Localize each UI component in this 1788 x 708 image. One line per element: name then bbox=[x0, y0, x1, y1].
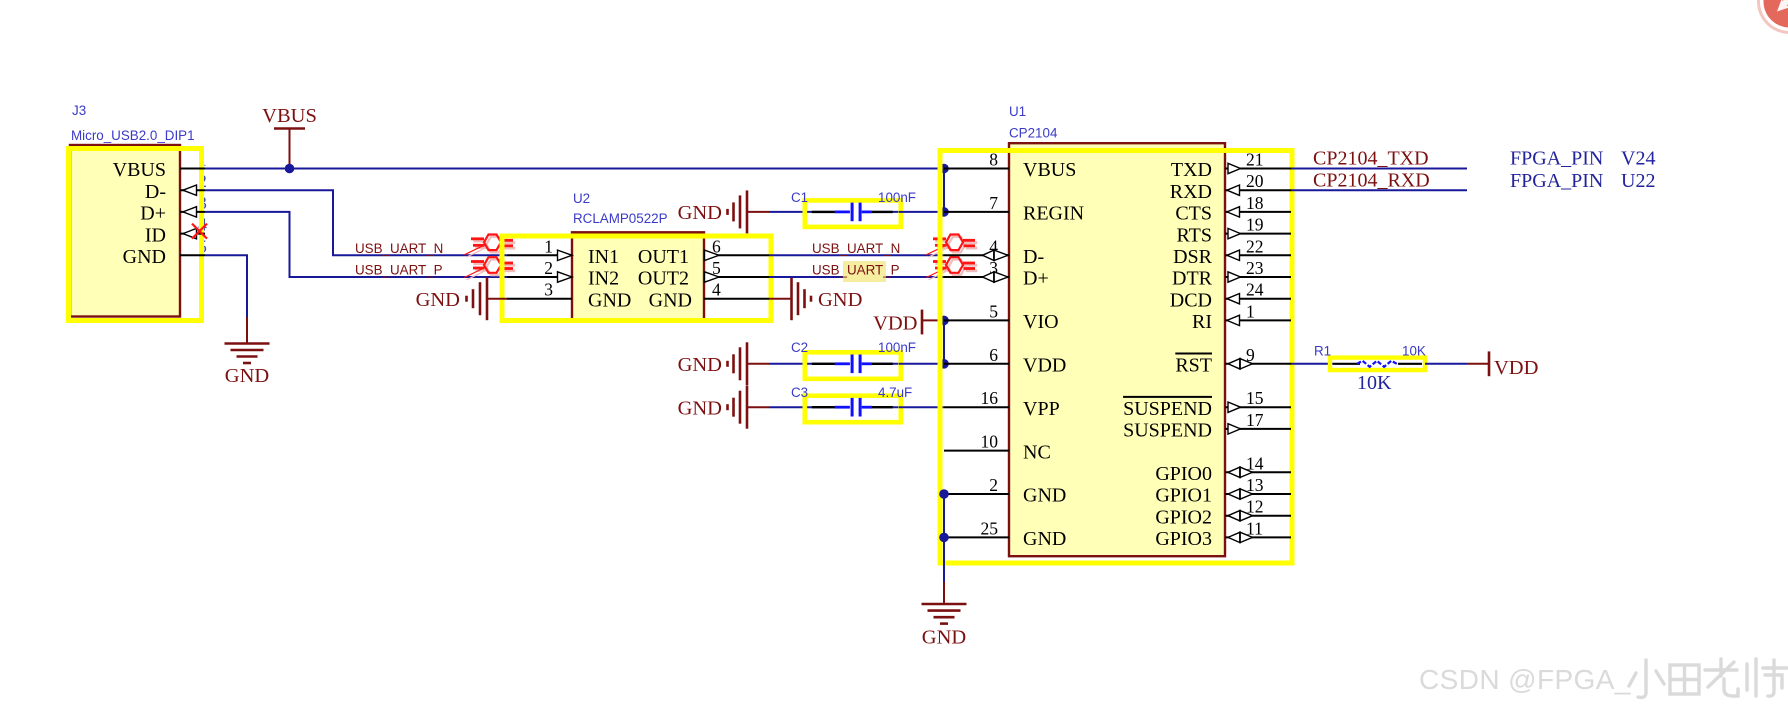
svg-text:GND: GND bbox=[123, 246, 166, 268]
svg-text:IN2: IN2 bbox=[588, 268, 619, 290]
svg-text:D-: D- bbox=[1023, 246, 1044, 268]
U1 pin 12 GPIO2 bbox=[1155, 497, 1291, 529]
svg-text:25: 25 bbox=[981, 518, 999, 538]
wire USB_UART_P: U2.OUT2 to U1.D+ bbox=[769, 276, 944, 278]
ground symbol at U2 pin 4 (rotated, facing left) bbox=[769, 277, 862, 320]
junction at VBUS stub bbox=[285, 164, 295, 174]
svg-text:U2: U2 bbox=[573, 191, 590, 206]
svg-text:D+: D+ bbox=[1023, 268, 1049, 290]
svg-text:CP2104: CP2104 bbox=[1009, 126, 1058, 141]
svg-text:GND: GND bbox=[678, 202, 722, 224]
svg-text:VDD: VDD bbox=[1494, 357, 1538, 379]
U1 pin 10 NC bbox=[944, 432, 1051, 464]
resistor R1 10K bbox=[1330, 358, 1425, 370]
U2 pin 1 IN1 bbox=[507, 236, 619, 268]
wire VBUS to REGIN vertical bbox=[943, 169, 945, 212]
svg-text:C1: C1 bbox=[791, 190, 808, 205]
svg-text:19: 19 bbox=[1246, 215, 1264, 235]
U1 pin 6 VDD bbox=[944, 345, 1066, 377]
search highlight on UART bbox=[843, 261, 886, 282]
svg-text:RCLAMP0522P: RCLAMP0522P bbox=[573, 211, 668, 226]
U1 pin 19 RTS bbox=[1177, 215, 1291, 247]
wire USB_UART_N: U2.OUT1 to U1.D- bbox=[769, 254, 944, 256]
svg-text:VBUS: VBUS bbox=[262, 105, 317, 127]
svg-text:21: 21 bbox=[1246, 150, 1264, 170]
U1 pin 20 RXD bbox=[1170, 171, 1291, 203]
U1 pin 1 RI bbox=[1192, 301, 1291, 333]
ESD protection U2 RCLAMP0522P body bbox=[502, 232, 771, 320]
svg-text:GND: GND bbox=[678, 398, 722, 420]
svg-text:CP2104_RXD: CP2104_RXD bbox=[1313, 170, 1430, 192]
wire VBUS net: J3.VBUS to U1 pin8 bbox=[205, 168, 944, 170]
svg-text:23: 23 bbox=[1246, 258, 1264, 278]
capacitor C3 4.7uF bbox=[805, 396, 901, 423]
wire gnd to C1 bbox=[769, 211, 806, 213]
svg-text:ID: ID bbox=[145, 224, 166, 246]
wire C3 to U1 pin16 bbox=[899, 406, 944, 408]
wire C2 to U1 pin6 bbox=[899, 363, 944, 365]
wire U1 GND pins to ground bbox=[939, 489, 949, 583]
U1 pin 15 SUSPEND bbox=[1123, 388, 1291, 420]
U1 pin 16 VPP bbox=[944, 388, 1060, 420]
J3 pin GND bbox=[123, 246, 205, 268]
svg-text:4: 4 bbox=[712, 280, 721, 300]
svg-text:CTS: CTS bbox=[1175, 203, 1212, 225]
svg-text:V24: V24 bbox=[1621, 148, 1655, 170]
svg-text:USB_UART_N: USB_UART_N bbox=[355, 241, 443, 256]
MCU U1 CP2104 body bbox=[940, 143, 1292, 563]
power port VDD at VIO bbox=[873, 310, 944, 335]
svg-text:VIO: VIO bbox=[1023, 311, 1059, 333]
wire R1 to VDD bbox=[1425, 363, 1467, 365]
svg-text:24: 24 bbox=[1246, 280, 1264, 300]
U1 pin 18 CTS bbox=[1175, 193, 1291, 225]
svg-text:USB_UART_P: USB_UART_P bbox=[355, 263, 443, 278]
svg-text:GND: GND bbox=[678, 354, 722, 376]
svg-text:5: 5 bbox=[712, 258, 721, 278]
svg-text:GND: GND bbox=[588, 289, 631, 311]
svg-text:RTS: RTS bbox=[1177, 224, 1212, 246]
svg-text:FPGA_PIN: FPGA_PIN bbox=[1510, 148, 1603, 170]
svg-text:5: 5 bbox=[989, 301, 998, 321]
ground symbol at C3 bbox=[678, 386, 769, 429]
svg-text:TXD: TXD bbox=[1171, 159, 1212, 181]
svg-text:GPIO2: GPIO2 bbox=[1155, 506, 1212, 528]
power port VDD right bbox=[1467, 351, 1538, 379]
svg-text:VDD: VDD bbox=[873, 313, 917, 335]
U1 pin 9 RST bbox=[1175, 345, 1291, 377]
svg-text:1: 1 bbox=[544, 236, 553, 256]
ground symbol at C2 bbox=[678, 342, 769, 385]
U1 pin 14 GPIO0 bbox=[1155, 453, 1291, 485]
svg-text:VDD: VDD bbox=[1023, 355, 1066, 377]
svg-text:C3: C3 bbox=[791, 385, 808, 400]
U1 pin 5 VIO bbox=[944, 301, 1059, 333]
wire USB_UART_N: J3.D- down to U2.IN1 bbox=[205, 190, 507, 255]
wire gnd to C3 bbox=[769, 406, 806, 408]
wire RST to R1 bbox=[1291, 363, 1333, 365]
wire VIO to VDD pin vertical bbox=[943, 320, 945, 363]
svg-text:U1: U1 bbox=[1009, 104, 1026, 119]
J3 pin D- bbox=[145, 181, 205, 203]
svg-text:NC: NC bbox=[1023, 441, 1051, 463]
svg-text:7: 7 bbox=[989, 193, 998, 213]
power port VBUS bbox=[262, 105, 317, 169]
U1 pin 7 REGIN bbox=[944, 193, 1084, 225]
text FPGA_PIN U22 bbox=[1510, 170, 1655, 192]
differential pair directive on USB_UART_N (left) bbox=[467, 237, 516, 257]
svg-text:2: 2 bbox=[989, 475, 998, 495]
wire C1 to U1 pin7 bbox=[899, 211, 944, 213]
svg-text:RST: RST bbox=[1175, 355, 1212, 377]
U1 pin 25 GND bbox=[944, 518, 1066, 550]
svg-text:100nF: 100nF bbox=[878, 340, 916, 355]
C3 labels bbox=[791, 385, 912, 400]
U1 pin 21 TXD bbox=[1171, 150, 1291, 182]
C2 labels bbox=[791, 340, 916, 355]
R1 labels bbox=[1314, 344, 1426, 395]
differential pair directive on USB_UART_N (right) bbox=[929, 237, 978, 257]
wire CP2104_TXD bbox=[1291, 168, 1467, 170]
svg-text:100nF: 100nF bbox=[878, 190, 916, 205]
svg-text:FPGA_PIN: FPGA_PIN bbox=[1510, 170, 1603, 192]
svg-text:CP2104_TXD: CP2104_TXD bbox=[1313, 148, 1429, 170]
U1 pin 13 GPIO1 bbox=[1155, 475, 1291, 507]
svg-text:VBUS: VBUS bbox=[113, 159, 166, 181]
ground symbol below J3 bbox=[225, 317, 270, 387]
svg-text:R1: R1 bbox=[1314, 344, 1331, 359]
svg-text:GND: GND bbox=[649, 289, 692, 311]
ground symbol at U2 pin 3 (rotated, facing right) bbox=[416, 277, 507, 320]
svg-text:D-: D- bbox=[145, 181, 166, 203]
svg-text:10K: 10K bbox=[1402, 344, 1426, 359]
svg-text:CSDN @FPGA_: CSDN @FPGA_ bbox=[1419, 664, 1631, 695]
svg-text:10K: 10K bbox=[1357, 372, 1392, 394]
wire J3.GND down bbox=[205, 255, 247, 318]
svg-text:22: 22 bbox=[1246, 236, 1264, 256]
svg-text:OUT1: OUT1 bbox=[638, 246, 689, 268]
U1 pin 23 DTR bbox=[1172, 258, 1291, 290]
C1 labels bbox=[791, 190, 916, 205]
differential pair directive on USB_UART_P (left) bbox=[467, 260, 516, 280]
svg-text:6: 6 bbox=[989, 345, 998, 365]
svg-text:IN1: IN1 bbox=[588, 246, 619, 268]
svg-text:GPIO3: GPIO3 bbox=[1155, 528, 1212, 550]
junction at VIO bbox=[939, 316, 949, 326]
svg-text:GND: GND bbox=[1023, 528, 1066, 550]
U1 pin 2 GND bbox=[944, 475, 1066, 507]
wire CP2104_RXD bbox=[1291, 189, 1467, 191]
junction at pin6 bbox=[939, 359, 949, 369]
differential pair directive on USB_UART_P (right) bbox=[929, 260, 978, 280]
ground symbol at C1 bbox=[678, 190, 769, 233]
svg-text:U22: U22 bbox=[1621, 170, 1655, 192]
svg-text:GND: GND bbox=[1023, 485, 1066, 507]
svg-text:15: 15 bbox=[1246, 388, 1264, 408]
text FPGA_PIN V24 bbox=[1510, 148, 1655, 170]
svg-text:GND: GND bbox=[225, 365, 269, 387]
U2 pin 4 GND bbox=[649, 280, 769, 312]
wire gnd to C2 bbox=[769, 363, 806, 365]
capacitor C2 100nF bbox=[805, 352, 901, 379]
svg-text:20: 20 bbox=[1246, 171, 1264, 191]
U1 pin 17 SUSPEND bbox=[1123, 410, 1291, 442]
U2 pin 6 OUT1 bbox=[638, 236, 769, 268]
svg-text:8: 8 bbox=[989, 150, 998, 170]
svg-text:J3: J3 bbox=[72, 103, 86, 118]
svg-text:REGIN: REGIN bbox=[1023, 203, 1084, 225]
svg-text:18: 18 bbox=[1246, 193, 1264, 213]
svg-text:USB_UART_N: USB_UART_N bbox=[812, 241, 900, 256]
svg-text:6: 6 bbox=[712, 236, 721, 256]
svg-text:C2: C2 bbox=[791, 340, 808, 355]
svg-text:GPIO0: GPIO0 bbox=[1155, 463, 1212, 485]
junction at pin8 bbox=[939, 164, 949, 174]
svg-text:GPIO1: GPIO1 bbox=[1155, 485, 1212, 507]
svg-text:16: 16 bbox=[981, 388, 999, 408]
svg-text:D+: D+ bbox=[140, 203, 166, 225]
U2 pin 2 IN2 bbox=[507, 258, 619, 290]
svg-text:Micro_USB2.0_DIP1: Micro_USB2.0_DIP1 bbox=[71, 128, 195, 143]
junction at pin7 bbox=[939, 207, 949, 217]
svg-text:3: 3 bbox=[544, 280, 553, 300]
J3 pin VBUS bbox=[113, 159, 205, 181]
svg-text:USB_UART_P: USB_UART_P bbox=[812, 263, 900, 278]
svg-text:2: 2 bbox=[544, 258, 553, 278]
svg-text:GND: GND bbox=[416, 289, 460, 311]
svg-text:VPP: VPP bbox=[1023, 398, 1060, 420]
svg-text:DCD: DCD bbox=[1170, 289, 1212, 311]
wire USB_UART_P: J3.D+ down to U2.IN2 bbox=[205, 212, 507, 277]
capacitor C1 100nF bbox=[805, 200, 901, 227]
J3 designator label bbox=[71, 103, 195, 143]
U1 pin 24 DCD bbox=[1170, 280, 1291, 312]
J3 pin D+ bbox=[140, 203, 205, 225]
svg-text:17: 17 bbox=[1246, 410, 1264, 430]
red circular badge (cropped) bbox=[1757, 0, 1788, 34]
svg-text:DTR: DTR bbox=[1172, 268, 1213, 290]
svg-text:DSR: DSR bbox=[1173, 246, 1213, 268]
svg-text:RXD: RXD bbox=[1170, 181, 1212, 203]
connector J3 Micro_USB2.0_DIP1 body bbox=[69, 145, 208, 321]
svg-text:GND: GND bbox=[922, 627, 966, 649]
svg-text:1: 1 bbox=[1246, 301, 1255, 321]
U1 pin 3 D+ bbox=[944, 258, 1049, 290]
U1 pin 11 GPIO3 bbox=[1155, 518, 1291, 550]
svg-text:GND: GND bbox=[818, 289, 862, 311]
svg-text:10: 10 bbox=[981, 432, 999, 452]
U1 pin 4 D- bbox=[944, 236, 1044, 268]
svg-text:RI: RI bbox=[1192, 311, 1212, 333]
U2 pin 5 OUT2 bbox=[638, 258, 769, 290]
U1 pin 8 VBUS bbox=[944, 150, 1076, 182]
U1 pin 22 DSR bbox=[1173, 236, 1291, 268]
watermark CSDN bbox=[1419, 659, 1787, 697]
svg-text:4.7uF: 4.7uF bbox=[878, 385, 912, 400]
svg-text:OUT2: OUT2 bbox=[638, 268, 689, 290]
svg-text:VBUS: VBUS bbox=[1023, 159, 1076, 181]
U2 designator label bbox=[573, 191, 668, 226]
U1 designator label bbox=[1009, 104, 1058, 141]
svg-text:SUSPEND: SUSPEND bbox=[1123, 398, 1212, 420]
ground symbol below U1 bbox=[922, 582, 967, 649]
U2 pin 3 GND bbox=[507, 280, 631, 312]
J3 pin ID with no-ERC red cross bbox=[145, 224, 207, 247]
svg-text:SUSPEND: SUSPEND bbox=[1123, 420, 1212, 442]
